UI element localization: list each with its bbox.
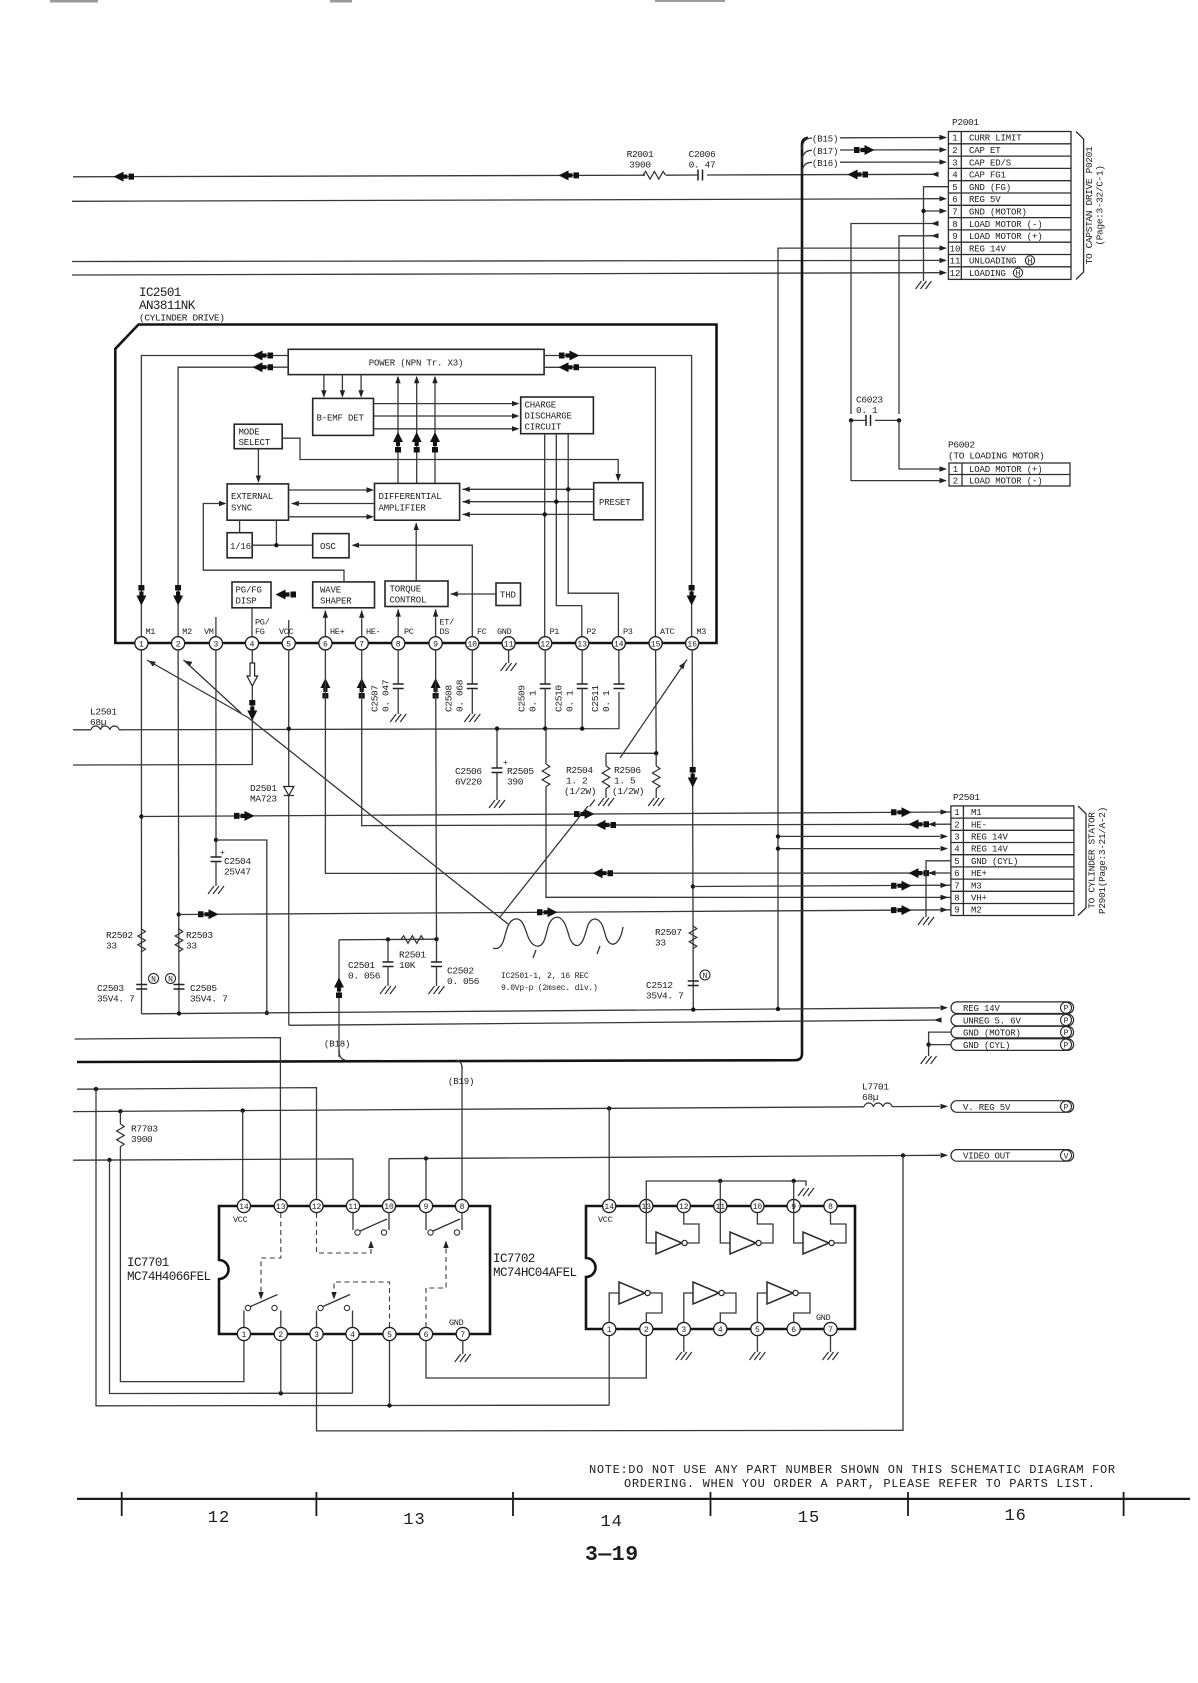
leader line merged to waveform: [248, 718, 508, 925]
wire GND(FG) row5 vertical to ground: [924, 187, 949, 281]
svg-text:P3: P3: [623, 627, 633, 637]
svg-text:P: P: [1064, 1029, 1069, 1038]
svg-text:P2501: P2501: [953, 792, 980, 803]
wire VM pin3 drop to C2504 and rail: [215, 650, 217, 840]
svg-text:C2506: C2506: [455, 766, 482, 777]
svg-text:16: 16: [687, 640, 697, 649]
wire LOAD MOTOR(+) row9: [899, 236, 937, 414]
wire UNREG 5.6V rail (from VCC pin5 drop): [289, 1020, 940, 1025]
svg-text:M1: M1: [971, 808, 982, 818]
svg-text:LOAD MOTOR (+): LOAD MOTOR (+): [969, 232, 1043, 242]
svg-text:10: 10: [753, 1203, 763, 1212]
bold arrow down on pin4 drop: [247, 700, 257, 721]
node junction row7/gnd vertical: [921, 209, 925, 213]
leader line pin16 to waveform: [679, 660, 688, 669]
IC7701 pin circles bottom 1-7: [237, 1327, 469, 1340]
wire pin9 ET/DS drop to R2501 net: [435, 650, 438, 939]
pill V. REG 5V: [951, 1101, 1074, 1113]
svg-text:SELECT: SELECT: [239, 438, 271, 448]
svg-text:(B18): (B18): [324, 1040, 350, 1050]
svg-text:7: 7: [359, 640, 364, 649]
svg-text:6: 6: [952, 195, 957, 205]
svg-text:1: 1: [139, 640, 144, 649]
pill VIDEO OUT: [951, 1150, 1074, 1162]
svg-text:6: 6: [791, 1326, 796, 1335]
wire C6023 left leg to P6002 pin2: [851, 420, 940, 480]
svg-text:14: 14: [239, 1203, 249, 1212]
IC2501 pin circles 1-16: [135, 637, 699, 650]
svg-text:9: 9: [952, 232, 957, 242]
wire EXT SYNC loop to WAVE SHAPER: [203, 504, 344, 582]
wire POWER to B-EMF (3 arrows down): [321, 375, 364, 398]
svg-text:M3: M3: [971, 881, 982, 891]
svg-text:CAP ED/S: CAP ED/S: [969, 158, 1011, 168]
diode D2501: [284, 787, 294, 796]
wire IC7701 pin10 riser: [388, 1159, 390, 1206]
wire pin5 VCC drop (to UNREG rail): [288, 650, 290, 1025]
box EXTERNAL SYNC: [227, 484, 288, 520]
IC7701 outline with notch: [219, 1206, 490, 1334]
svg-text:UNREG 5. 6V: UNREG 5. 6V: [963, 1016, 1022, 1026]
svg-text:5: 5: [387, 1331, 392, 1340]
IC7702 pin circles bottom 1-7: [603, 1322, 838, 1335]
wire P2501 row3 REG 14V: [778, 835, 940, 837]
svg-text:IC2501-1, 2, 16 REC: IC2501-1, 2, 16 REC: [501, 972, 589, 981]
capacitor C2509: [544, 650, 546, 684]
svg-text:1: 1: [953, 465, 958, 475]
bold arrow down into pin1: [136, 585, 146, 606]
svg-text:P: P: [1064, 1042, 1069, 1051]
wire IC7701 pin6 to IC7702 pin2: [426, 1334, 646, 1378]
wire DIFF AMP to POWER (3 risers with bold up arrows): [393, 376, 440, 484]
wire P2501 row5 GND(CYL) to ground: [926, 861, 951, 917]
svg-text:(B19): (B19): [448, 1077, 474, 1087]
wire POWER right to pin16 (M3 drive): [544, 356, 692, 651]
wire CHARGE leg P1 (to DIFF AMP, PRESET, pin12): [544, 434, 546, 650]
wire B-EMF to CHARGE (3 lines w/ arrows): [374, 401, 520, 432]
resistor R7703: [119, 1111, 121, 1124]
svg-text:GND (CYL): GND (CYL): [963, 1041, 1010, 1051]
svg-text:6V220: 6V220: [455, 777, 482, 788]
wire EXT SYNC to 1/16: [239, 520, 241, 533]
svg-text:4: 4: [350, 1331, 355, 1340]
wire pin1 to POWER left (M1 drive): [141, 356, 288, 651]
box DIFFERENTIAL AMPLIFIER: [375, 483, 460, 520]
N mark C2503: [149, 974, 159, 984]
svg-text:10: 10: [384, 1203, 394, 1212]
svg-text:P2: P2: [587, 627, 597, 637]
box WAVE SHAPER: [313, 582, 375, 608]
svg-text:P2901(Page:3-21/A-2): P2901(Page:3-21/A-2): [1097, 807, 1108, 914]
svg-text:3: 3: [681, 1326, 686, 1335]
svg-text:CAP ET: CAP ET: [969, 146, 1001, 156]
svg-text:0. 1: 0. 1: [856, 405, 878, 416]
svg-text:MA723: MA723: [250, 794, 277, 805]
wire UNLOADING net (row11): [72, 260, 940, 261]
capacitor C2505 (electrolytic): [174, 985, 185, 990]
wire VIDEO OUT rail (left segment to IC7701 pin11): [73, 1159, 353, 1206]
svg-text:R2001: R2001: [627, 149, 654, 160]
svg-text:R2501: R2501: [399, 950, 426, 961]
wire V.REG 5V rail: [73, 1107, 864, 1112]
pill GND (MOTOR): [951, 1026, 1074, 1038]
wire EXT SYNC to DIFF AMP (top): [289, 489, 372, 491]
svg-text:6: 6: [954, 869, 959, 879]
wire pin10 FC to OSC: [354, 545, 473, 650]
svg-text:L2501: L2501: [90, 707, 117, 718]
pill UNREG 5.6V: [951, 1014, 1074, 1026]
svg-text:2: 2: [644, 1326, 649, 1335]
svg-text:CHARGE: CHARGE: [525, 401, 557, 411]
wire IC7701 pin9 riser: [425, 1159, 427, 1207]
svg-text:P2001: P2001: [952, 117, 979, 128]
svg-text:R2504: R2504: [566, 765, 593, 776]
svg-text:12: 12: [540, 640, 550, 649]
svg-text:2: 2: [954, 820, 959, 830]
svg-text:GND (FG): GND (FG): [969, 183, 1011, 193]
svg-text:9: 9: [424, 1203, 429, 1212]
wire pin4 riser to PG/FG DISP: [251, 608, 253, 650]
wire IC7701 pin2 riser: [280, 1334, 282, 1393]
svg-text:GND: GND: [497, 627, 512, 637]
svg-text:DISP: DISP: [236, 597, 257, 607]
svg-text:VH+: VH+: [971, 894, 987, 904]
leader line pin1 to waveform: [147, 660, 248, 718]
svg-text:N: N: [703, 972, 708, 981]
wire ATC junction to R2504: [606, 752, 656, 754]
bold arrow WAVE SHAPER to PG/FG DISP: [276, 590, 297, 600]
wire pin6 HE+ drop to P2501 row6: [325, 650, 951, 873]
svg-text:1/16: 1/16: [230, 542, 251, 552]
dashed control pin12 to SW1: [317, 1213, 372, 1253]
wire DIFF AMP to EXT SYNC (middle): [292, 503, 375, 505]
N mark C2505: [166, 974, 176, 984]
capacitor C2512 (electrolytic): [688, 981, 699, 986]
svg-text:6: 6: [424, 1331, 429, 1340]
svg-text:HE+: HE+: [330, 627, 345, 637]
svg-text:4: 4: [250, 640, 255, 649]
resistor R2507: [689, 926, 697, 949]
svg-text:1: 1: [954, 808, 959, 818]
wire B16 to P2001 pin3: [840, 161, 940, 163]
svg-text:L7701: L7701: [862, 1082, 889, 1093]
svg-text:HE-: HE-: [366, 627, 380, 637]
svg-text:DIFFERENTIAL: DIFFERENTIAL: [379, 492, 442, 502]
dashed control pin13 to SW3: [261, 1213, 281, 1295]
svg-text:5: 5: [755, 1326, 760, 1335]
wire pin2 to POWER left (M2 drive): [178, 367, 288, 650]
svg-text:MODE: MODE: [239, 428, 260, 438]
svg-text:5: 5: [286, 640, 291, 649]
svg-text:M2: M2: [182, 627, 192, 637]
wire VIDEO OUT rail (right segment): [389, 1155, 940, 1158]
wire pin11 GND stub to ground below: [508, 649, 510, 663]
svg-text:35V4. 7: 35V4. 7: [97, 994, 134, 1005]
svg-text:8: 8: [828, 1203, 833, 1212]
svg-text:25V47: 25V47: [224, 867, 251, 878]
wire C6023 right leg to P6002 pin1: [899, 420, 940, 469]
capacitor C2503 (electrolytic): [136, 985, 147, 990]
wire branch x=96 down to IC7702 pin1 net: [96, 1089, 609, 1406]
svg-text:(B17): (B17): [812, 147, 838, 157]
node C6023 right junction: [897, 418, 901, 422]
svg-text:PG/: PG/: [255, 618, 270, 628]
svg-text:MC74HC04AFEL: MC74HC04AFEL: [493, 1266, 577, 1280]
wire branch x=109.5 down to pin2/pin4 loop: [110, 1160, 353, 1394]
wire IC7701 pin4 riser: [352, 1334, 354, 1393]
svg-text:4: 4: [952, 171, 957, 181]
svg-text:8: 8: [954, 894, 959, 904]
svg-text:WAVE: WAVE: [320, 586, 341, 596]
svg-text:C2511: C2511: [590, 685, 601, 712]
inverter U2D (1 to 2): [609, 1293, 619, 1323]
node C6023 left junction: [849, 418, 853, 422]
resistor R2504: [605, 753, 607, 766]
svg-text:7: 7: [828, 1326, 833, 1335]
svg-text:3900: 3900: [629, 160, 651, 171]
svg-text:(1/2W): (1/2W): [612, 786, 644, 797]
svg-text:R2506: R2506: [614, 765, 641, 776]
capacitor C6023: [851, 419, 866, 421]
svg-text:M1: M1: [146, 627, 156, 637]
svg-text:B-EMF DET: B-EMF DET: [317, 414, 365, 424]
svg-text:P1: P1: [550, 627, 560, 637]
svg-text:13: 13: [577, 640, 587, 649]
svg-text:REG 14V: REG 14V: [971, 845, 1009, 855]
svg-text:VM: VM: [204, 627, 214, 637]
wire pin8 to TORQUE CONTROL: [397, 609, 399, 650]
svg-text:ET/: ET/: [440, 618, 455, 628]
svg-text:SHAPER: SHAPER: [320, 597, 352, 607]
svg-text:OSC: OSC: [320, 542, 337, 552]
svg-text:AMPLIFIER: AMPLIFIER: [379, 504, 427, 514]
svg-text:C2501: C2501: [348, 960, 375, 971]
svg-text:(1/2W): (1/2W): [564, 786, 596, 797]
svg-text:VCC: VCC: [598, 1215, 613, 1225]
svg-text:MC74H4066FEL: MC74H4066FEL: [127, 1270, 211, 1284]
switch SW1 (pins 11-10): [353, 1213, 389, 1236]
wire pin15 ATC drop: [655, 650, 658, 753]
IC7702 pin circles top 14-8: [603, 1199, 838, 1212]
svg-text:PRESET: PRESET: [599, 498, 631, 508]
N mark C2512: [700, 970, 710, 980]
svg-text:0. 47: 0. 47: [689, 160, 716, 171]
pin name labels: [146, 618, 707, 638]
svg-text:CAP FG1: CAP FG1: [969, 171, 1006, 181]
inverter U2C (9 to 8): [794, 1213, 803, 1244]
wire 1/16 to OSC with branch up to EXT SYNC: [252, 544, 313, 546]
svg-text:LOAD MOTOR (-): LOAD MOTOR (-): [969, 477, 1043, 487]
box MODE SELECT: [234, 424, 282, 449]
svg-text:1: 1: [241, 1331, 246, 1340]
ground (P2001 FG/MOTOR): [916, 281, 932, 289]
switch SW4 (pins 3-4): [317, 1295, 353, 1328]
svg-text:3: 3: [314, 1331, 319, 1340]
svg-text:33: 33: [106, 941, 117, 952]
ground IC7702 pin3: [683, 1336, 685, 1353]
capacitor C2511: [618, 650, 620, 684]
svg-text:0. 1: 0. 1: [528, 690, 539, 712]
ground IC7701 pin7: [462, 1340, 464, 1354]
svg-text:DS: DS: [440, 627, 450, 637]
svg-text:R2505: R2505: [507, 766, 534, 777]
bold arrow down on pin16 riser (inside IC): [687, 585, 697, 606]
IC7702 outline with notch: [586, 1206, 855, 1329]
svg-text:P: P: [1064, 1104, 1069, 1113]
svg-text:CONTROL: CONTROL: [390, 596, 427, 606]
wire pin9 to TORQUE CONTROL: [435, 609, 437, 650]
svg-text:11: 11: [504, 640, 514, 649]
svg-text:GND (MOTOR): GND (MOTOR): [963, 1028, 1021, 1038]
svg-text:4: 4: [954, 845, 959, 855]
wire IC7701 pin14 VCC riser: [242, 1111, 244, 1206]
svg-text:IC2501: IC2501: [139, 286, 181, 300]
svg-text:7: 7: [952, 208, 957, 218]
svg-text:33: 33: [655, 938, 666, 949]
IC7701 pin circles top 14-8: [237, 1199, 468, 1212]
svg-text:8: 8: [952, 220, 957, 230]
svg-text:(Page:3-32/C-1): (Page:3-32/C-1): [1095, 165, 1106, 245]
svg-text:11: 11: [950, 257, 961, 267]
bold arrow left on CAP FG1 wire (left): [114, 172, 135, 182]
wire GND(CYL) stub: [929, 1044, 951, 1046]
svg-text:C2505: C2505: [190, 983, 217, 994]
capacitor C2507: [397, 650, 399, 684]
resistor R2505 (pin12 net to VH+ row8): [545, 729, 547, 764]
svg-text:SYNC: SYNC: [231, 504, 253, 514]
svg-text:1: 1: [952, 134, 957, 144]
wire IC7701 pin3 to VIDEO OUT loop: [317, 1156, 904, 1431]
resistor R2506: [655, 753, 657, 766]
node (B15) hook: [802, 138, 812, 150]
svg-text:12: 12: [312, 1203, 322, 1212]
ground IC7702 pin5: [756, 1336, 758, 1353]
svg-text:GND (CYL): GND (CYL): [971, 857, 1018, 867]
switch SW2 (pins 9-8): [426, 1213, 462, 1236]
svg-text:C6023: C6023: [856, 395, 883, 406]
wire CHARGE leg P3 (jog to pin14): [568, 434, 618, 650]
wire MODE SELECT to PRESET: [282, 438, 618, 478]
svg-text:C2512: C2512: [646, 980, 673, 991]
wire M1 net (pin1 drop to P2501 row1): [140, 650, 142, 1014]
svg-text:D2501: D2501: [250, 783, 277, 794]
svg-text:13: 13: [276, 1203, 286, 1212]
wire MODE SELECT to EXTERNAL SYNC: [257, 449, 259, 481]
pill GND (CYL): [951, 1039, 1074, 1051]
wire IC7702 pin1 riser: [608, 1334, 610, 1405]
svg-text:N: N: [151, 976, 156, 985]
svg-text:CIRCUIT: CIRCUIT: [525, 423, 563, 433]
wire THD to TORQUE CONTROL: [451, 593, 497, 595]
svg-text:8: 8: [460, 1203, 465, 1212]
wire P2501 row8 arrowhead: [941, 895, 949, 900]
ground IC7702 pin7: [830, 1336, 832, 1353]
capacitor C2501: [387, 940, 389, 963]
svg-text:H: H: [1028, 257, 1033, 266]
svg-text:GND (MOTOR): GND (MOTOR): [969, 208, 1027, 218]
cable bus vertical (B15/B16/B17 to B18/B19): [77, 138, 808, 1062]
white arrow on pin4 drop: [247, 663, 258, 686]
IC2501 outline: [115, 325, 716, 644]
svg-text:1: 1: [607, 1326, 612, 1335]
svg-text:0. 056: 0. 056: [447, 976, 480, 987]
box TORQUE CONTROL: [385, 581, 448, 607]
svg-text:2: 2: [953, 477, 958, 487]
node (B18) drop from C2501 wire to cable bus: [338, 940, 340, 1057]
capacitor C2502: [436, 939, 438, 962]
svg-text:0. 1: 0. 1: [601, 690, 612, 712]
capacitor C2506 (electrolytic): [496, 729, 498, 768]
svg-text:14: 14: [604, 1203, 614, 1212]
svg-text:C2507: C2507: [370, 685, 381, 712]
small arrowheads into pins 1,2 from below (scope leaders): [147, 658, 156, 666]
svg-text:GND: GND: [449, 1318, 464, 1328]
svg-text:10: 10: [467, 640, 477, 649]
pill REG 14V: [951, 1002, 1074, 1014]
wire GND(MOTOR) stub: [929, 1032, 951, 1056]
switch SW3 (pins 1-2): [244, 1295, 281, 1328]
wire REG 14V rail: [142, 1008, 941, 1014]
wire main cap rail (L2501 to pin14 corner): [119, 692, 619, 730]
svg-text:15: 15: [651, 640, 661, 649]
svg-text:15: 15: [798, 1509, 820, 1528]
svg-text:C2503: C2503: [97, 983, 124, 994]
svg-text:390: 390: [507, 777, 524, 788]
svg-text:0. 068: 0. 068: [455, 679, 466, 712]
dashed control pin6 to SW2: [426, 1243, 446, 1327]
svg-text:CURR LIMIT: CURR LIMIT: [969, 134, 1022, 144]
svg-text:(CYLINDER DRIVE): (CYLINDER DRIVE): [139, 313, 225, 324]
svg-text:14: 14: [600, 1513, 622, 1532]
resistor R2501: [401, 936, 424, 944]
capacitor C2510: [581, 650, 583, 684]
ruler line: [77, 1498, 1190, 1500]
svg-text:M2: M2: [971, 906, 982, 916]
svg-text:NOTE:DO NOT USE ANY PART NUMBE: NOTE:DO NOT USE ANY PART NUMBER SHOWN ON…: [589, 1463, 1116, 1477]
svg-text:11: 11: [348, 1203, 358, 1212]
wire LOAD MOTOR(-) row8: [851, 224, 937, 415]
svg-text:16: 16: [1004, 1507, 1026, 1526]
svg-text:3900: 3900: [131, 1134, 153, 1145]
bold arrow left on CAP FG1 wire (right): [848, 170, 869, 180]
wire IC7702 input ground rail (pins 13,11,9): [646, 1181, 806, 1213]
box POWER (NPN Tr. X3): [288, 349, 544, 374]
box PRESET: [594, 483, 643, 520]
svg-text:2: 2: [278, 1331, 283, 1340]
wire B15 to P2001 pin1: [840, 137, 940, 139]
svg-text:7: 7: [460, 1331, 465, 1340]
wire IC7701 pin5 riser: [389, 1334, 391, 1406]
svg-text:35V4. 7: 35V4. 7: [190, 994, 227, 1005]
svg-text:R2502: R2502: [106, 930, 133, 941]
svg-text:C2508: C2508: [444, 685, 455, 712]
svg-text:6: 6: [323, 640, 328, 649]
wire TORQUE CONTROL to DIFF AMP: [415, 523, 417, 581]
box THD: [496, 583, 521, 606]
capacitor C2006: [698, 170, 703, 181]
wire margin to IC7701 pin13: [75, 1038, 281, 1206]
svg-text:R2507: R2507: [655, 927, 682, 938]
leader line pin2 to waveform: [184, 660, 242, 713]
svg-text:REG 14V: REG 14V: [969, 244, 1007, 254]
node (B19) drop from cable bus to IC7701 pin8: [456, 1060, 462, 1068]
wire pin7 to WAVE SHAPER: [361, 611, 363, 651]
svg-text:3: 3: [213, 640, 218, 649]
node (B17) hook: [802, 150, 812, 162]
svg-text:9: 9: [433, 640, 438, 649]
svg-text:0. 1: 0. 1: [565, 690, 576, 712]
dashed control pin5 to SW4: [334, 1282, 390, 1327]
